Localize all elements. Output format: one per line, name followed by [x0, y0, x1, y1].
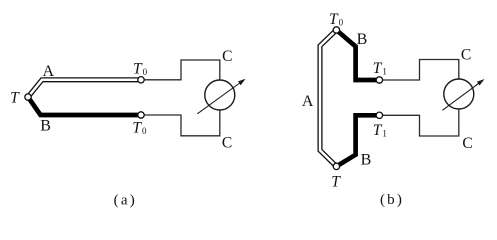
wire B upper (thermoelectrode B, thick, fig b) — [336, 30, 379, 80]
svg-text:A: A — [43, 63, 55, 80]
junction node T (hot junction, fig a) — [25, 94, 31, 100]
meter G (galvanometer, fig a) — [197, 79, 245, 114]
wire C upper (copper lead, fig a) — [141, 60, 220, 80]
svg-text:C: C — [461, 47, 471, 64]
wire C upper (copper lead, fig b) — [379, 60, 458, 81]
wire B (thermoelectrode B, thick, fig a) — [28, 97, 141, 115]
meter G (galvanometer, fig b) — [442, 79, 484, 110]
svg-text:B: B — [357, 31, 368, 48]
junction node T (fig b) — [333, 163, 339, 169]
wire C lower (copper lead, fig a) — [141, 110, 220, 136]
svg-text:C: C — [222, 48, 232, 65]
svg-text:B: B — [361, 152, 372, 169]
svg-text:C: C — [462, 135, 472, 152]
node T1 upper (reference junction, fig b) — [376, 77, 382, 83]
wire B lower (thermoelectrode B, thick, fig b) — [336, 115, 379, 166]
wire A (thermoelectrode A, double-line, fig a) — [28, 80, 141, 97]
svg-text:T: T — [10, 89, 20, 106]
node T0 lower (reference junction, fig a) — [138, 112, 144, 118]
svg-text:(b): (b) — [380, 192, 404, 208]
svg-text:C: C — [222, 135, 232, 152]
svg-text:T: T — [331, 174, 341, 191]
svg-text:B: B — [40, 118, 51, 135]
svg-text:A: A — [302, 93, 314, 110]
svg-text:(a): (a) — [114, 193, 137, 208]
wire A (thermoelectrode A, double-line, fig b) — [320, 30, 336, 166]
node T0 (hot-end junction, fig b) — [333, 27, 339, 33]
node T1 lower (reference junction, fig b) — [376, 112, 382, 118]
wire C lower (copper lead, fig b) — [379, 109, 458, 136]
node T0 upper (reference junction, fig a) — [138, 77, 144, 83]
